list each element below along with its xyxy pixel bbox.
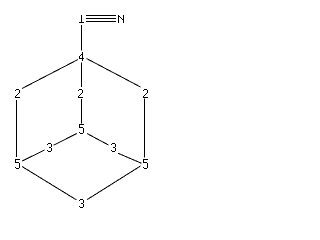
- node C5 left label 5: [15, 159, 20, 169]
- triple bond C1#N line 1: [86, 15, 116, 17]
- node C4 label 4: [79, 52, 84, 61]
- wire bond C3right-C5right diagonal: [118, 153, 142, 163]
- triple bond C1#N line 2: [86, 18, 116, 20]
- node C2 right label 2: [143, 89, 148, 98]
- wire bond C2right-C5right vertical: [144, 99, 146, 158]
- node C2 middle label 2: [78, 89, 83, 98]
- wire bond C4-C2mid vertical: [81, 63, 83, 88]
- node C3 bottom label 3: [79, 199, 84, 208]
- node C3 right label 3: [111, 143, 116, 152]
- node C1 label 1: [79, 15, 84, 23]
- node C2 left label 2: [15, 89, 20, 98]
- wire bond C3left-C5left diagonal: [22, 150, 44, 161]
- wire bond C2mid-C5mid vertical: [81, 99, 83, 124]
- node C5 middle label 5: [79, 124, 84, 134]
- node C5 right label 5: [143, 159, 148, 169]
- wire bond C5right-C3bottom diagonal: [87, 166, 140, 200]
- node C3 left label 3: [47, 143, 52, 152]
- wire bond C5mid-C3left diagonal: [54, 134, 77, 146]
- wire bond C2left-C5left vertical: [16, 100, 18, 157]
- wire bond C1-C4 vertical: [81, 25, 83, 51]
- node N nitrogen label: [118, 15, 124, 23]
- wire bond C4-C2left diagonal: [22, 60, 78, 89]
- wire bond C5left-C3bottom diagonal: [22, 167, 76, 200]
- wire bond C4-C2right diagonal: [87, 59, 141, 88]
- triple bond C1#N line 3: [86, 21, 116, 23]
- molecule: adamantane-1-carbonitrile structure diagram: [0, 0, 192, 222]
- wire bond C5mid-C3right diagonal: [87, 134, 109, 146]
